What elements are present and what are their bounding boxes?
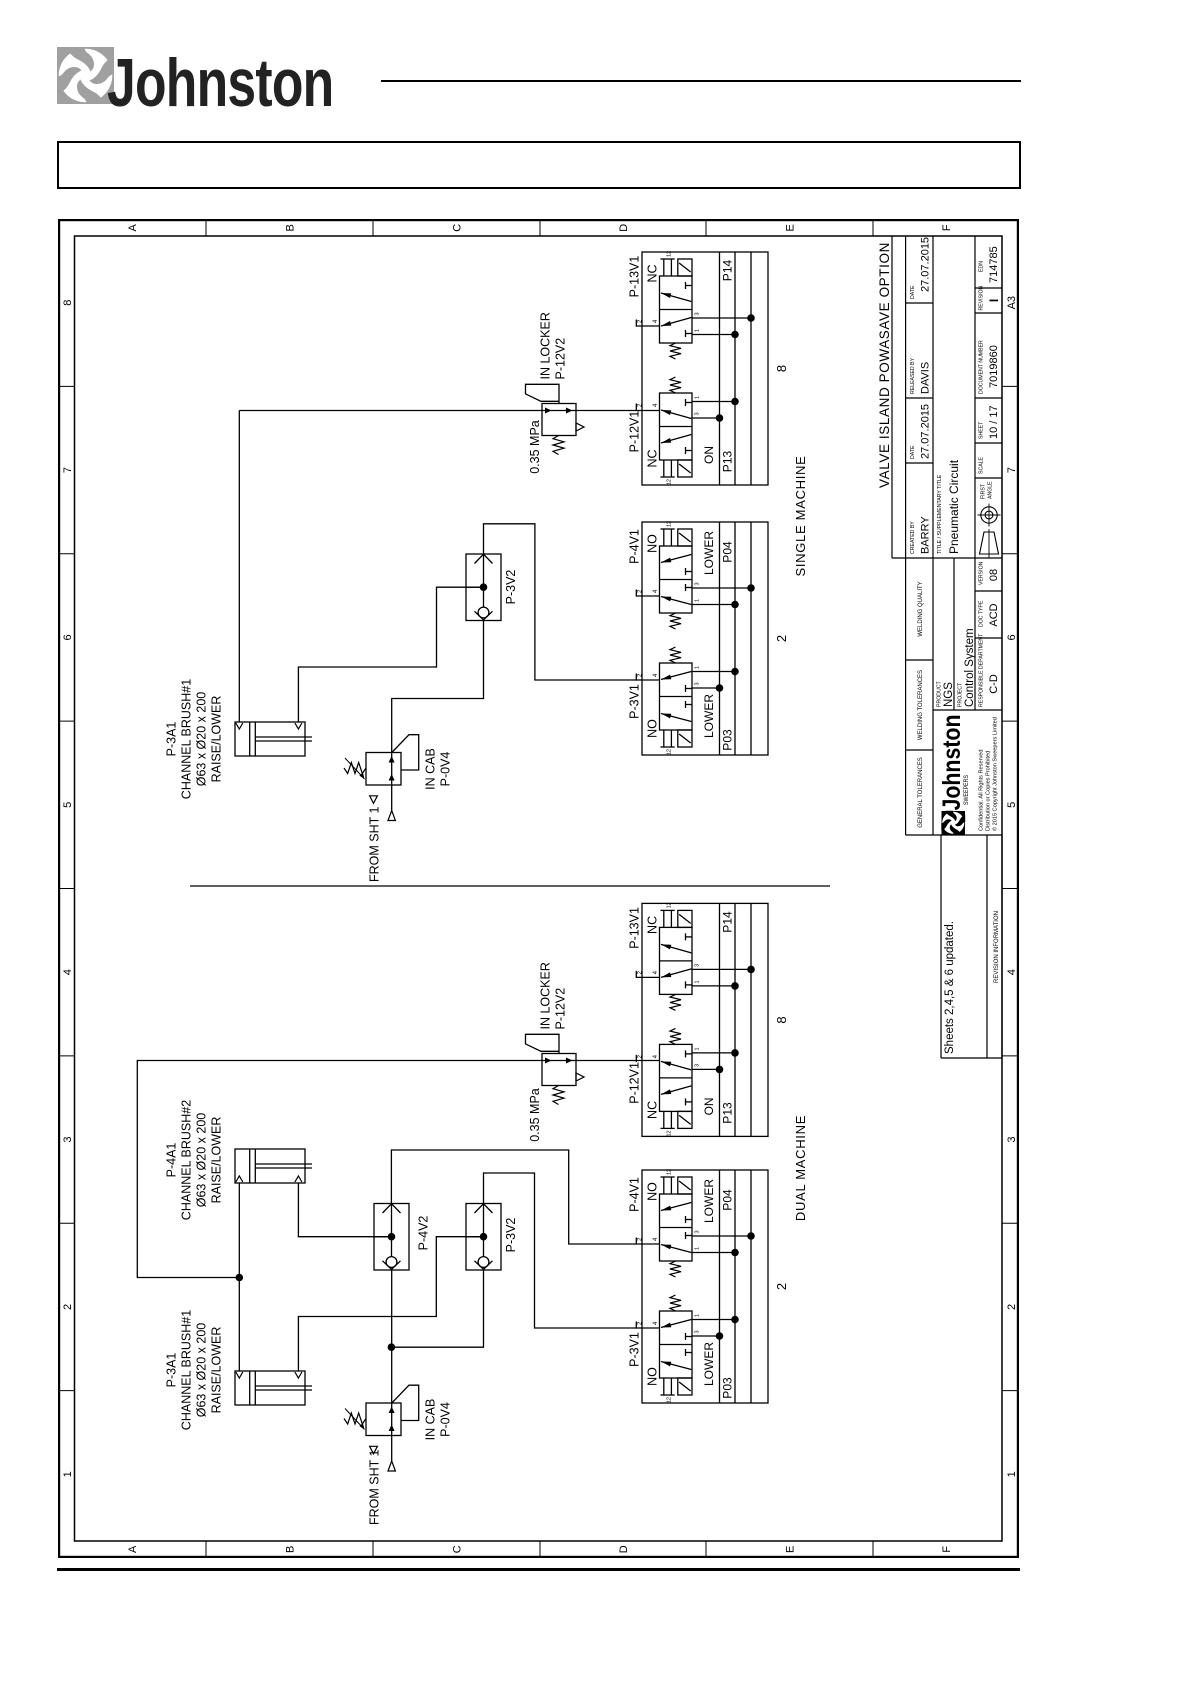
svg-text:P-13V1: P-13V1	[628, 256, 642, 298]
regulator P-0V4 (dual) adjust handle	[392, 1385, 419, 1420]
check valve P-3V2 internal flow line	[483, 554, 485, 607]
check valve P-4V2 outlet seat	[383, 1204, 401, 1213]
valve P-4V1 pilot port 12	[663, 529, 665, 546]
svg-text:A3: A3	[1006, 296, 1018, 309]
svg-text:1: 1	[695, 1047, 701, 1050]
svg-text:2: 2	[1006, 1304, 1018, 1310]
svg-text:SCALE: SCALE	[979, 456, 985, 474]
valve P-13V1 ports 1,3 to bus	[692, 334, 735, 336]
Johnston header logo mark	[57, 47, 114, 104]
drawing frame inner border	[75, 236, 1003, 1541]
cylinder P-3A1 (dual) body	[235, 1371, 305, 1405]
valve P-13V1 flow paths and blocked ports	[661, 969, 691, 978]
svg-text:NC: NC	[646, 264, 660, 282]
svg-text:1: 1	[695, 1314, 701, 1317]
svg-text:BARRY: BARRY	[920, 516, 932, 554]
svg-text:Ø63 x Ø20 x 200: Ø63 x Ø20 x 200	[195, 1323, 209, 1418]
regulator P-0V4 (dual) relief vent	[370, 1446, 378, 1454]
check valve P-4V2 body	[374, 1204, 409, 1271]
valve P-3V1 ports 1,3 to bus	[692, 1319, 735, 1321]
svg-text:WELDING TOLERANCES: WELDING TOLERANCES	[918, 670, 924, 740]
wire cylinder P-3A1 bottom port to check valve P-3V2 inlet tap	[298, 587, 483, 722]
valve island P-3V1/P-4V1 (dual) bus lines	[719, 1170, 721, 1403]
svg-text:FROM SHT 1: FROM SHT 1	[368, 806, 382, 882]
svg-text:12: 12	[667, 1397, 673, 1403]
valve P-3V1 return spring	[670, 647, 681, 663]
svg-text:DUAL MACHINE: DUAL MACHINE	[793, 1115, 808, 1221]
svg-text:F: F	[941, 1546, 953, 1553]
svg-text:DOC TYPE: DOC TYPE	[979, 600, 985, 627]
svg-text:D: D	[618, 224, 630, 232]
FROM SHT 1 supply arrow (single)	[388, 811, 395, 821]
svg-text:C: C	[452, 1545, 464, 1553]
check valve P-3V2 body	[466, 554, 501, 621]
regulator P-0V4 (dual) spring with adjust arrow	[344, 1413, 366, 1424]
svg-text:P14: P14	[721, 911, 735, 933]
port 2 stub and tick	[635, 404, 637, 411]
wire check valve P-3V2 outlet to valve P-3V1 port 2	[484, 524, 660, 680]
svg-text:IN CAB: IN CAB	[424, 748, 438, 790]
svg-text:Sheets 2,4,5 & 6 updated.: Sheets 2,4,5 & 6 updated.	[944, 921, 956, 1054]
valve P-12V1 body	[660, 393, 693, 460]
svg-text:PROJECT: PROJECT	[958, 682, 964, 707]
svg-text:VERSION: VERSION	[979, 561, 985, 585]
svg-text:P-0V4: P-0V4	[439, 752, 453, 787]
port 2 stub and tick	[635, 1322, 637, 1329]
regulator P-0V4 (single) relief vent	[370, 796, 378, 804]
svg-text:5: 5	[1006, 802, 1018, 808]
check valve P-4V2 top port tap	[374, 1236, 392, 1238]
svg-text:P03: P03	[721, 729, 735, 751]
svg-text:ON: ON	[702, 1097, 716, 1115]
svg-text:4: 4	[653, 673, 659, 677]
svg-text:12: 12	[667, 1169, 673, 1175]
svg-text:3: 3	[695, 1230, 701, 1233]
svg-text:P-12V2: P-12V2	[554, 988, 568, 1030]
check valve P-3V2 top port tap	[466, 586, 484, 588]
svg-text:RELEASED BY: RELEASED BY	[910, 357, 916, 394]
svg-text:SWEEPERS: SWEEPERS	[963, 775, 970, 805]
port 2 stub and tick	[635, 1055, 637, 1062]
svg-text:P-3A1: P-3A1	[165, 722, 179, 757]
svg-text:7: 7	[1006, 467, 1018, 473]
svg-text:CREATED BY: CREATED BY	[910, 521, 916, 554]
svg-text:ON: ON	[702, 446, 716, 464]
svg-text:P-3V1: P-3V1	[628, 684, 642, 719]
svg-text:4: 4	[1006, 969, 1018, 975]
port 2 stub and tick	[635, 1238, 637, 1245]
check valve P-3V2 top port tap	[466, 1236, 484, 1238]
check valve P-3V2 internal flow line	[483, 1204, 485, 1257]
svg-text:3: 3	[62, 1136, 74, 1142]
valve island P-3V1/P-4V1 (dual) enclosure	[642, 1170, 768, 1403]
valve island P-3V1/P-4V1 (single) bus lines	[719, 522, 721, 755]
svg-text:12: 12	[667, 521, 673, 527]
check valve P-3V2 outlet seat	[475, 1204, 493, 1213]
svg-text:SINGLE MACHINE: SINGLE MACHINE	[793, 455, 808, 576]
svg-text:DATE: DATE	[910, 285, 916, 299]
valve P-12V1 return spring	[670, 377, 681, 393]
svg-text:Ø63 x Ø20 x 200: Ø63 x Ø20 x 200	[195, 1113, 209, 1208]
valve P-12V1 ports 1,3 to bus	[692, 1052, 735, 1054]
cylinder P-3A1 (dual) piston	[249, 1371, 251, 1405]
svg-text:1: 1	[62, 1471, 74, 1477]
svg-text:2: 2	[62, 1304, 74, 1310]
svg-text:3: 3	[695, 1064, 701, 1067]
valve P-3V1 flow paths and blocked ports	[661, 714, 691, 722]
wire cylinder P-3A1 top port to supply	[238, 411, 240, 723]
svg-text:P03: P03	[721, 1377, 735, 1399]
valve P-3V1 solenoid	[678, 730, 692, 747]
svg-text:E: E	[785, 1546, 797, 1553]
wire check valve inlet branch down to P-3V2 (dual)	[391, 1270, 483, 1347]
cylinder P-3A1 (dual) rod	[255, 1389, 312, 1391]
cylinder P-4A1 (dual) ports	[236, 1176, 243, 1182]
svg-text:CHANNEL BRUSH#1: CHANNEL BRUSH#1	[180, 1310, 194, 1430]
svg-text:NGS: NGS	[943, 682, 955, 707]
svg-text:CHANNEL BRUSH#2: CHANNEL BRUSH#2	[180, 1100, 194, 1220]
section divider single/dual	[190, 885, 830, 887]
valve P-13V1 return spring	[670, 343, 681, 359]
valve P-3V1 flow paths and blocked ports	[661, 1362, 691, 1370]
svg-text:4: 4	[653, 1054, 659, 1058]
regulator P-12V2 (dual) body	[542, 1054, 576, 1086]
svg-text:P-3V1: P-3V1	[628, 1332, 642, 1367]
FROM SHT 1 supply arrow (dual)	[388, 1461, 395, 1471]
svg-text:P-4V1: P-4V1	[628, 529, 642, 564]
svg-text:8: 8	[62, 300, 74, 306]
svg-text:LOWER: LOWER	[702, 694, 716, 738]
valve P-13V1 flow paths and blocked ports	[661, 318, 691, 327]
svg-text:1: 1	[695, 396, 701, 399]
valve P-3V1 return spring	[670, 1295, 681, 1311]
svg-text:I: I	[987, 299, 1001, 302]
valve P-3V1 solenoid	[678, 1378, 692, 1395]
wire check valve P-3V2 outlet to valve P-3V1 port 2 (dual)	[484, 1173, 660, 1328]
valve P-4V1 flow paths and blocked ports	[661, 597, 691, 605]
svg-text:1: 1	[695, 599, 701, 602]
svg-text:DATE: DATE	[910, 445, 916, 459]
svg-text:VALVE ISLAND POWASAVE OPTION: VALVE ISLAND POWASAVE OPTION	[877, 242, 892, 488]
svg-text:4: 4	[653, 589, 659, 593]
valve island P-3V1/P-4V1 (single) enclosure	[642, 522, 768, 755]
svg-text:7: 7	[62, 467, 74, 473]
drawing frame outer border	[59, 220, 1018, 1557]
svg-text:P04: P04	[721, 1189, 735, 1211]
valve P-3V1 body	[660, 663, 693, 730]
valve island P-12V1/P-13V1 (dual) enclosure	[642, 903, 768, 1136]
title block outline lines	[891, 236, 893, 558]
header horizontal rule	[381, 80, 1021, 82]
port 2 stub and tick	[636, 595, 659, 597]
svg-text:P-3V2: P-3V2	[504, 570, 518, 605]
svg-text:4: 4	[653, 319, 659, 323]
svg-text:2: 2	[774, 635, 789, 642]
valve P-4V1 return spring	[670, 1261, 681, 1277]
valve P-3V1 ports 1,3 to bus	[692, 671, 735, 673]
bottom rule	[57, 1568, 1020, 1571]
wire cylinder top ports common line (dual)	[238, 1183, 240, 1371]
svg-text:IN CAB: IN CAB	[424, 1399, 438, 1441]
svg-text:12: 12	[667, 251, 673, 257]
svg-text:1: 1	[695, 329, 701, 332]
valve P-12V1 pilot port 12	[663, 1111, 665, 1128]
svg-text:P-12V2: P-12V2	[554, 338, 568, 380]
valve P-4V1 body	[660, 546, 693, 613]
svg-text:NO: NO	[646, 1182, 660, 1201]
svg-text:3: 3	[695, 682, 701, 685]
valve P-12V1 pilot port 12	[663, 460, 665, 477]
valve P-12V1 solenoid	[678, 460, 692, 477]
svg-text:RESPONSIBLE DEPARTMENT: RESPONSIBLE DEPARTMENT	[979, 633, 985, 707]
svg-text:P-4V1: P-4V1	[628, 1177, 642, 1212]
wire cylinder P-3A1 bottom port to check valve P-3V2 tap (dual)	[298, 1237, 483, 1371]
svg-text:ANGLE: ANGLE	[988, 481, 994, 499]
regulator P-12V2 (single) spring	[553, 436, 564, 455]
svg-text:12: 12	[667, 749, 673, 755]
svg-text:P04: P04	[721, 541, 735, 563]
revision information box	[940, 835, 942, 1058]
cylinder P-4A1 (dual) body	[235, 1149, 305, 1183]
svg-text:12: 12	[667, 479, 673, 485]
svg-text:5: 5	[62, 802, 74, 808]
valve P-13V1 pilot port 12	[663, 910, 665, 927]
svg-text:A: A	[127, 1545, 139, 1553]
svg-text:6: 6	[62, 634, 74, 640]
grid reference ticks left/right	[205, 1541, 207, 1557]
svg-text:P-3A1: P-3A1	[165, 1353, 179, 1388]
regulator P-12V2 (dual) relief vent	[576, 1073, 584, 1081]
svg-text:NO: NO	[646, 719, 660, 738]
regulator P-0V4 (dual) flow arrowheads	[389, 1425, 395, 1432]
regulator P-0V4 (dual) body	[366, 1403, 401, 1436]
svg-text:12: 12	[667, 1130, 673, 1136]
junction check valves common inlet (dual)	[388, 1343, 396, 1351]
valve P-4V1 body	[660, 1194, 693, 1261]
svg-text:C: C	[452, 224, 464, 232]
valve P-13V1 return spring	[670, 994, 681, 1010]
svg-text:4: 4	[62, 969, 74, 975]
valve island P-12V1/P-13V1 (single) enclosure	[642, 252, 768, 485]
svg-text:CHANNEL BRUSH#1: CHANNEL BRUSH#1	[180, 679, 194, 799]
cylinder P-3A1 (single) body	[235, 722, 305, 756]
svg-text:P-13V1: P-13V1	[628, 907, 642, 949]
svg-text:3: 3	[695, 412, 701, 415]
svg-text:NC: NC	[646, 449, 660, 467]
wire check valve P-4V2 outlet to valve P-4V1 port 2 (dual)	[391, 1150, 659, 1244]
valve P-12V1 body	[660, 1044, 693, 1111]
svg-text:0.35 MPa: 0.35 MPa	[528, 1088, 542, 1142]
valve P-4V1 return spring	[670, 613, 681, 629]
check valve P-4V2 ball and seat	[386, 1257, 397, 1268]
svg-text:P-12V1: P-12V1	[628, 411, 642, 453]
svg-text:4: 4	[653, 1321, 659, 1325]
junction supply branch (dual)	[236, 1274, 244, 1282]
valve P-3V1 body	[660, 1311, 693, 1378]
svg-text:A: A	[127, 223, 139, 231]
svg-text:P-12V1: P-12V1	[628, 1062, 642, 1104]
svg-text:3: 3	[695, 964, 701, 967]
svg-text:P-0V4: P-0V4	[439, 1402, 453, 1437]
svg-text:4: 4	[653, 1237, 659, 1241]
valve P-3V1 pilot port 12	[663, 730, 665, 747]
valve island P-12V1/P-13V1 (dual) bus lines	[719, 903, 721, 1136]
svg-text:SHEET: SHEET	[979, 421, 985, 439]
valve P-12V1 return spring	[670, 1028, 681, 1044]
svg-text:7019860: 7019860	[988, 345, 1000, 388]
svg-text:Confidential. All Rights Reser: Confidential. All Rights Reserved	[979, 750, 985, 831]
check valve P-3V2 outlet seat	[475, 554, 493, 563]
svg-text:REVISION: REVISION	[979, 285, 985, 310]
svg-text:FROM SHT 1: FROM SHT 1	[368, 1449, 382, 1525]
valve P-13V1 solenoid	[678, 910, 692, 927]
svg-text:F: F	[941, 224, 953, 231]
valve P-4V1 ports 1,3 to bus	[692, 604, 735, 606]
svg-text:27.07.2015: 27.07.2015	[920, 237, 932, 292]
wire supply riser to regulator P-12V2 and island (dual)	[137, 1061, 659, 1278]
svg-text:3: 3	[695, 1330, 701, 1333]
svg-text:6: 6	[1006, 634, 1018, 640]
svg-text:NO: NO	[646, 534, 660, 553]
svg-text:0.35 MPa: 0.35 MPa	[528, 420, 542, 474]
svg-text:EDN: EDN	[979, 261, 985, 272]
wire FROM SHT 1 through regulator P-0V4 to check valve P-4V2 inlet	[391, 1270, 393, 1461]
valve P-12V1 flow paths and blocked ports	[661, 1086, 691, 1095]
svg-text:E: E	[785, 224, 797, 231]
valve P-13V1 body	[660, 276, 693, 343]
cylinder P-4A1 (dual) piston	[249, 1149, 251, 1183]
regulator P-12V2 (single) flow arrowheads	[545, 408, 552, 414]
svg-text:TITLE / SUPPLEMENTARY TITLE: TITLE / SUPPLEMENTARY TITLE	[937, 474, 943, 554]
svg-text:3: 3	[695, 312, 701, 315]
wire supply line P-12V1 port 2 through regulator P-12V2	[239, 410, 659, 412]
valve P-4V1 solenoid	[678, 1177, 692, 1194]
port 2 stub and tick	[635, 674, 637, 681]
svg-text:P-4A1: P-4A1	[165, 1143, 179, 1178]
valve island P-12V1/P-13V1 (single) bus lines	[719, 252, 721, 485]
svg-text:B: B	[285, 1546, 297, 1553]
valve P-4V1 flow paths and blocked ports	[661, 1245, 691, 1253]
svg-text:NC: NC	[646, 916, 660, 934]
cylinder P-3A1 (single) rod	[255, 740, 312, 742]
svg-text:B: B	[285, 224, 297, 231]
valve P-13V1 ports 1,3 to bus	[692, 985, 735, 987]
svg-text:© 2015 Copyright Johnston Swee: © 2015 Copyright Johnston Sweepers Limit…	[992, 717, 999, 831]
svg-text:ACD: ACD	[988, 603, 1000, 626]
svg-text:Ø63 x Ø20 x 200: Ø63 x Ø20 x 200	[195, 692, 209, 787]
svg-text:DAVIS: DAVIS	[920, 362, 932, 394]
svg-text:P-4V2: P-4V2	[417, 1216, 431, 1251]
valve P-13V1 pilot port 12	[663, 259, 665, 276]
svg-text:8: 8	[774, 365, 789, 372]
regulator P-12V2 (single) adjust handle	[526, 384, 560, 403]
svg-text:08: 08	[988, 569, 1000, 581]
svg-text:C-D: C-D	[988, 674, 1000, 694]
svg-text:P14: P14	[721, 260, 735, 282]
svg-text:8: 8	[774, 1016, 789, 1023]
cylinder P-3A1 (dual) ports	[236, 1372, 243, 1378]
svg-text:PRODUCT: PRODUCT	[937, 681, 943, 707]
port 2 stub and tick	[636, 976, 659, 978]
port 2 stub and tick	[636, 325, 659, 327]
svg-text:2: 2	[774, 1283, 789, 1290]
svg-text:DOCUMENT NUMBER: DOCUMENT NUMBER	[979, 340, 985, 394]
valve P-4V1 solenoid	[678, 529, 692, 546]
wire cylinder P-4A1 bottom port to check valve P-4V2 tap (dual)	[298, 1183, 391, 1237]
valve P-13V1 body	[660, 927, 693, 994]
svg-text:P13: P13	[721, 451, 735, 473]
check valve P-3V2 ball and seat	[478, 1257, 489, 1268]
svg-text:3: 3	[1006, 1136, 1018, 1142]
svg-text:IN LOCKER: IN LOCKER	[539, 962, 553, 1029]
svg-text:Johnston: Johnston	[938, 715, 966, 811]
svg-text:1: 1	[695, 666, 701, 669]
regulator P-12V2 (single) relief vent	[576, 423, 584, 431]
cylinder P-3A1 (single) ports	[236, 723, 243, 729]
regulator P-0V4 (single) spring with adjust arrow	[344, 763, 366, 774]
svg-text:P-3V2: P-3V2	[504, 1218, 518, 1253]
regulator P-12V2 (dual) flow arrowheads	[545, 1058, 552, 1064]
valve P-3V1 pilot port 12	[663, 1378, 665, 1395]
svg-text:27.07.2015: 27.07.2015	[920, 404, 932, 459]
svg-text:P13: P13	[721, 1102, 735, 1124]
svg-text:12: 12	[667, 902, 673, 908]
svg-text:Distribution or Copies Prohibi: Distribution or Copies Prohibited	[986, 751, 992, 831]
svg-text:RAISE/LOWER: RAISE/LOWER	[210, 1117, 224, 1204]
svg-text:GENERAL TOLERANCES: GENERAL TOLERANCES	[918, 757, 924, 828]
svg-text:LOWER: LOWER	[702, 1342, 716, 1386]
svg-text:NC: NC	[646, 1101, 660, 1119]
svg-text:D: D	[618, 1545, 630, 1553]
empty document header box	[57, 141, 1021, 189]
svg-text:REVISION INFORMATION: REVISION INFORMATION	[994, 911, 1000, 983]
regulator P-12V2 (dual) adjust handle	[526, 1034, 560, 1053]
cylinder P-3A1 (single) piston	[249, 722, 251, 756]
svg-text:10 / 17: 10 / 17	[988, 405, 1000, 439]
svg-text:4: 4	[653, 970, 659, 974]
check valve P-4V2 internal flow line	[391, 1204, 393, 1257]
svg-text:1: 1	[1006, 1471, 1018, 1477]
valve P-13V1 solenoid	[678, 259, 692, 276]
regulator P-0V4 (single) adjust handle	[392, 735, 419, 770]
first angle projection symbol	[980, 532, 999, 554]
regulator P-12V2 (single) body	[542, 404, 576, 436]
Johnston header wordmark	[107, 44, 333, 122]
valve P-4V1 ports 1,3 to bus	[692, 1252, 735, 1254]
valve P-12V1 flow paths and blocked ports	[661, 435, 691, 444]
svg-text:RAISE/LOWER: RAISE/LOWER	[210, 696, 224, 783]
cylinder P-4A1 (dual) rod	[255, 1167, 312, 1169]
svg-text:714785: 714785	[988, 246, 1000, 283]
svg-text:NO: NO	[646, 1367, 660, 1386]
svg-text:1: 1	[695, 1247, 701, 1250]
regulator P-0V4 (single) flow arrowheads	[389, 774, 395, 781]
grid reference ticks top/bottom	[59, 1390, 74, 1392]
check valve P-3V2 ball and seat	[478, 607, 489, 618]
regulator P-0V4 (single) body	[366, 753, 401, 786]
svg-text:FIRST: FIRST	[981, 483, 987, 499]
svg-text:LOWER: LOWER	[702, 531, 716, 575]
svg-text:IN LOCKER: IN LOCKER	[539, 312, 553, 379]
svg-text:WELDING QUALITY: WELDING QUALITY	[918, 581, 924, 636]
title block Johnston logo	[941, 811, 965, 835]
check valve P-3V2 body	[466, 1204, 501, 1271]
svg-text:1: 1	[695, 980, 701, 983]
svg-text:Control System: Control System	[964, 628, 976, 707]
svg-text:RAISE/LOWER: RAISE/LOWER	[210, 1327, 224, 1414]
svg-text:LOWER: LOWER	[702, 1179, 716, 1223]
wire FROM SHT 1 through regulator P-0V4 to check valve P-3V2 inlet	[392, 621, 484, 811]
